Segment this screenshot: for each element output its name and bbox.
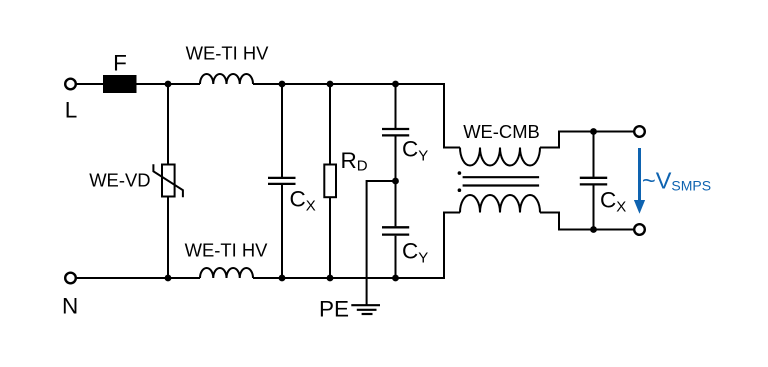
common mode choke WE-CMB secondary winding (460, 195, 540, 213)
resistor Rd body (324, 165, 336, 198)
common mode choke WE-CMB primary winding (460, 148, 540, 166)
node A junction (165, 81, 172, 88)
varistor WE-VD wire from node A (167, 84, 169, 165)
node B junction (Cx column, top) (279, 81, 286, 88)
terminal output top (634, 126, 645, 137)
node G junction (Cx column, bottom) (279, 275, 286, 282)
wire top rail corner down to CMB top coil (444, 83, 460, 148)
capacitor Cy1 plates (382, 128, 409, 130)
node D junction (Cy column, top) (392, 81, 399, 88)
node C junction (Rd column, top) (327, 81, 334, 88)
node K junction (output Cx bottom) (590, 226, 597, 233)
capacitor Cx1 bottom lead (281, 185, 283, 278)
capacitor Cx2 bottom lead (593, 185, 595, 229)
capacitor Cx2 plates (580, 177, 607, 179)
common mode choke WE-CMB core lines (463, 176, 539, 178)
capacitor Cy2 plates (382, 226, 409, 228)
terminal N (65, 273, 76, 284)
wire bottom rail corner up to CMB bottom coil (444, 213, 460, 280)
inductor WE-TI HV (line L) (200, 74, 253, 84)
node J junction (output Cx top) (590, 128, 597, 135)
svg-text:WE-VD: WE-VD (89, 170, 150, 191)
common mode choke WE-CMB phase dot 2 (458, 188, 462, 192)
svg-text:WE-TI HV: WE-TI HV (186, 43, 269, 64)
svg-text:F: F (113, 51, 127, 76)
capacitor Cy2 bottom lead (395, 236, 397, 278)
resistor Rd top lead (329, 84, 331, 165)
fuse F (103, 75, 137, 93)
svg-text:L: L (65, 98, 78, 123)
node E junction (between Cy caps) (392, 178, 399, 185)
svg-text:WE-TI HV: WE-TI HV (185, 240, 268, 261)
inductor WE-TI HV (line N) (200, 268, 253, 278)
common mode choke WE-CMB phase dot 1 (458, 171, 462, 175)
node H junction (Rd column, bottom) (327, 275, 334, 282)
capacitor Cy1 top lead (395, 84, 397, 128)
varistor WE-VD wire to bottom rail (167, 197, 169, 279)
svg-text:WE-CMB: WE-CMB (463, 121, 540, 142)
resistor Rd bottom lead (329, 197, 331, 278)
arrow Vsmps (blue) (634, 148, 645, 214)
capacitor Cy2 top lead (395, 181, 397, 226)
wire CMB bottom coil to output bottom terminal (540, 213, 634, 230)
capacitor Cx1 top lead (281, 84, 283, 177)
wire fuse to node A (137, 83, 201, 85)
svg-text:N: N (62, 293, 78, 318)
wire bottom rail inductor to corner (253, 277, 444, 279)
varistor WE-VD body (162, 165, 175, 197)
wire top rail inductor to corner (253, 83, 444, 85)
ground PE symbol (351, 305, 380, 314)
wire N terminal to inductor (77, 277, 200, 279)
varistor WE-VD diagonal (153, 164, 183, 197)
wire CMB top coil to output top terminal (540, 132, 634, 148)
wire node E to PE ground (367, 181, 396, 305)
wire L terminal to fuse (77, 83, 103, 85)
svg-text:PE: PE (319, 297, 349, 322)
capacitor Cx1 plates (268, 177, 296, 179)
terminal output bottom (634, 224, 645, 235)
capacitor Cy1 bottom lead to node E (395, 137, 397, 182)
node I junction (Cy column, bottom) (392, 275, 399, 282)
terminal L (65, 79, 76, 90)
node F junction (varistor column, bottom) (165, 275, 172, 282)
capacitor Cx2 top lead (593, 132, 595, 177)
